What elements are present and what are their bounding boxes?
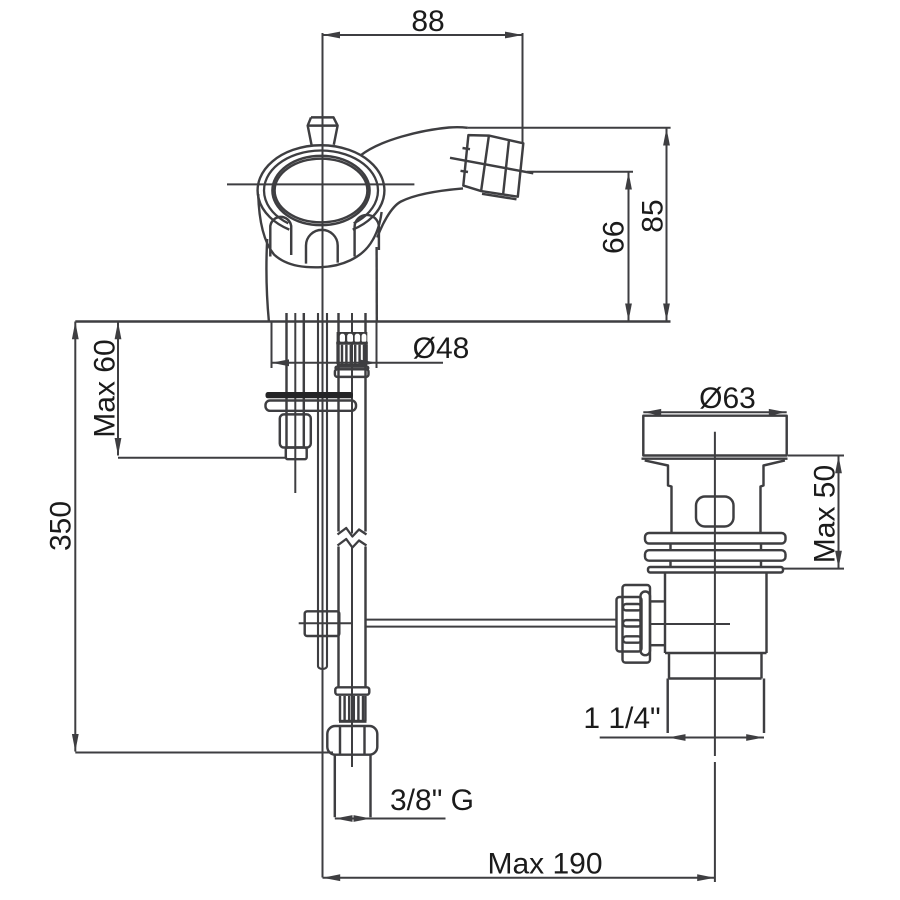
mounting nut collar [286,448,307,460]
arrow 3/8 left [335,815,353,822]
arrow 88 right [505,32,523,39]
overflow hole [696,497,734,527]
drain flange cap [643,416,786,456]
svg-text:Max 60: Max 60 [88,339,121,437]
mounting nut [280,414,311,447]
drain knob stem [650,600,665,602]
arrow O48 right [359,359,377,366]
drain knob capsule [641,592,651,656]
arrow 66 bottom [625,304,632,322]
mounting stud walls [285,313,287,448]
arrow 3/8 right [354,815,372,822]
svg-text:88: 88 [411,5,444,38]
drain knob slot 2 [623,620,641,626]
dim Max60 bottom extension [118,457,286,459]
knob ellipse E2 [264,151,378,224]
spout top curve [361,127,468,155]
svg-text:Max 190: Max 190 [487,848,602,881]
hex nut 3/8 [327,726,377,755]
knob skirt left silhouette [258,194,381,267]
supply pipe walls upper [337,313,339,532]
supply pipe centerline [351,313,353,534]
aerator tick marks [463,148,471,149]
aerator bottom lip [482,194,517,200]
svg-text:3/8" G: 3/8" G [390,784,474,817]
hex nut facets [339,727,341,754]
faucet vertical centerline [322,33,324,878]
tailpipe walls [334,755,336,818]
arrow Max50 bottom [835,551,842,569]
body wall segment between washers [669,544,671,551]
faucet horizontal centerline [227,183,414,185]
thread block lower dark band [337,364,367,367]
lower thread ridges [339,696,341,721]
pipe collar [335,369,369,377]
arrow 350 bottom [72,734,79,752]
arrow 1 1/4 left [668,734,686,741]
pivot rod center inside drain [650,623,730,625]
countertop line [75,320,670,322]
arrow 85 top [663,128,670,146]
pivot rod double line [367,619,617,621]
drain knob back plate [623,585,651,663]
dim Max50 bottom extension [783,568,844,570]
handle stem rim line [308,124,338,126]
knob outer ellipse E1 [258,145,385,229]
svg-text:1 1/4": 1 1/4" [583,702,660,735]
thread block dark band [336,342,368,345]
gasket black band [266,392,354,398]
lift rod walls [317,313,319,666]
arrow Max60 top [115,322,122,340]
thread block top windows [337,332,368,342]
lower pipe collar [335,687,369,694]
pivot rod stub left [299,622,352,624]
drain centerline [714,432,716,756]
knob groove left [270,217,291,257]
mounting stud centerline [294,313,296,493]
dim O48 line [272,362,444,364]
washer 2 [645,550,786,561]
dim Max60 line [117,322,119,456]
arrow Max60 bottom [115,438,122,456]
lift rod slider block [305,611,340,636]
supply pipe walls lower [337,547,339,688]
pipe break symbol [338,528,367,537]
dim Max50 line [838,456,840,568]
lower thread dark band [339,720,367,723]
arrow Max190 right [697,874,715,881]
washer 3 thin [648,567,783,573]
drain tailpiece [666,679,668,734]
dim 350 line [74,322,76,752]
arrow Max190 left [323,874,341,881]
aerator middle line [450,158,533,174]
spout bottom curve [377,188,463,237]
svg-text:66: 66 [597,221,630,254]
dim O63 line [643,411,786,413]
drain funnel left [645,460,672,533]
arrow O63 left [644,409,662,416]
svg-text:350: 350 [44,501,77,551]
thread block ridges [336,345,338,364]
mounting flange [266,401,357,411]
ext line 66 [527,171,633,173]
knob ellipse E3 [272,156,369,225]
arrow Max50 top [835,456,842,474]
thread block lower flange [336,367,369,370]
dim 88 line [323,34,523,36]
drain narrow section [668,653,670,679]
dim 350 bottom extension [75,752,333,754]
drain knob slot 1 [623,604,641,610]
knob groove center [306,230,338,264]
dim Max50 top extension [788,455,844,457]
dim 3/8 line [335,818,446,820]
arrow 85 bottom [663,304,670,322]
svg-text:Max 50: Max 50 [808,465,841,563]
ext line 85 [468,127,671,129]
aerator divider 1 [481,136,489,192]
arrow O63 right [769,409,787,416]
dim 66 line [628,172,630,322]
arrow 88 left [323,32,341,39]
arrow 350 top [72,322,79,340]
knob ellipse E4 [275,159,368,223]
arrow 66 top [625,172,632,190]
svg-text:Ø63: Ø63 [699,382,756,415]
body wall segment [669,561,671,567]
dim O48 right extension [376,322,378,368]
dim 88 right extension [522,33,524,143]
svg-text:85: 85 [636,199,669,232]
drain knob slot 3 [623,636,641,642]
washer 1 [645,533,786,544]
handle stem cap [308,117,338,144]
drain funnel right [761,460,785,533]
arrow 1 1/4 right [746,734,764,741]
dim O48 left extension [271,322,273,368]
dim 85 line [666,128,668,322]
knob groove right [355,215,379,257]
dim 1 1/4 line [600,737,764,739]
dim Max190 line [323,877,715,879]
arrow O48 left [272,359,290,366]
knob skirt right silhouette [375,247,378,322]
aerator divider 2 [503,140,509,196]
svg-text:Ø48: Ø48 [413,332,470,365]
drain knob front plate [617,597,642,652]
aerator outline [463,135,523,197]
lift rod rounded tip [318,666,327,669]
drain lower body [665,573,767,654]
drain flange rim line [642,457,788,459]
